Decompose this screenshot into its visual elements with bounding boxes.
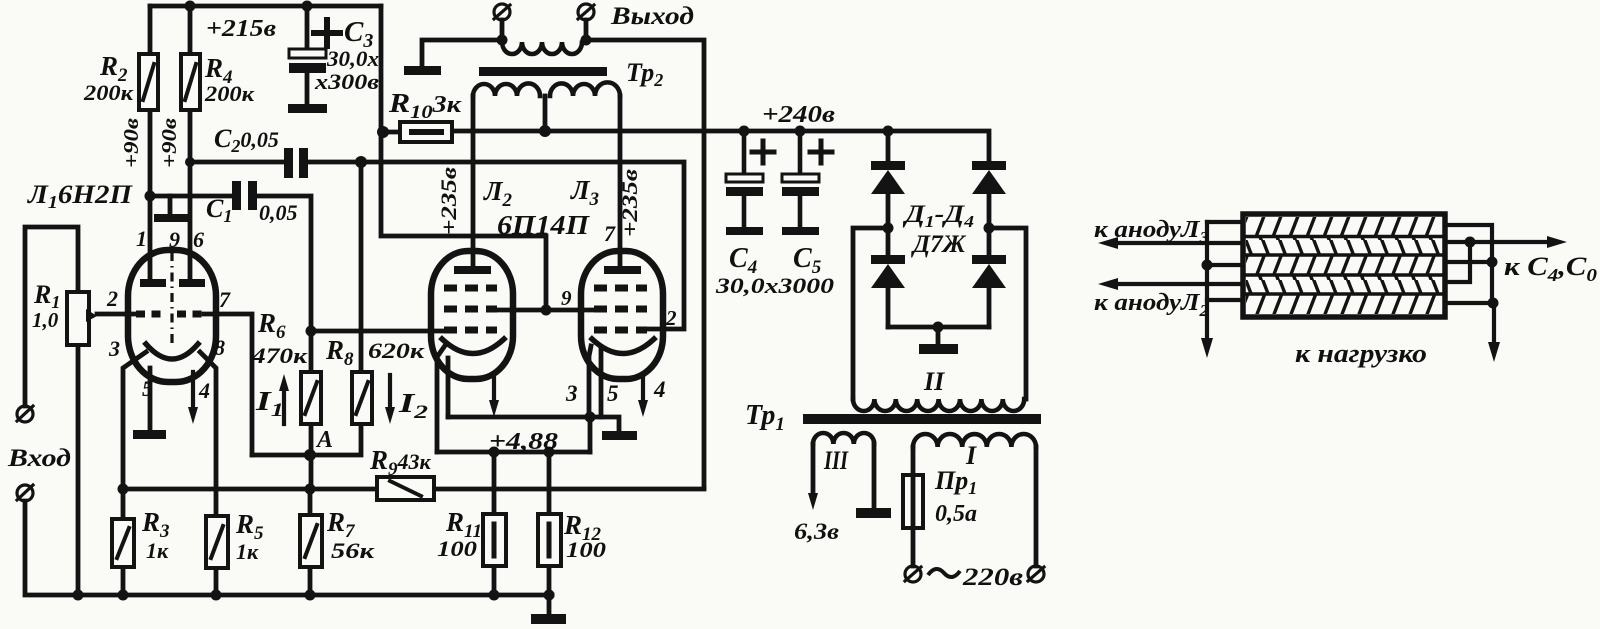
wire top +215v rail [150,4,381,9]
node rectifier right arrow tap [1465,237,1476,248]
wire R8 top drop [359,162,364,372]
resistor R8 [352,372,372,424]
wire Tr2 primary left end to L2 anode [471,96,476,266]
svg-text:9: 9 [169,227,180,252]
current arrow I2 [385,375,395,424]
svg-text:100: 100 [566,537,606,562]
input terminal upper [17,406,33,422]
diode D1 [871,161,905,194]
chassis bar heater bus [602,431,637,440]
svg-text:R6: R6 [257,308,286,343]
wire R3 bottom lead [121,566,126,595]
svg-text:Д7Ж: Д7Ж [911,231,967,258]
wire C2 right to grid riser of L3 [307,162,684,329]
wire R1 wiper from grid pin2 [97,312,140,317]
tube L3 envelope [581,251,663,379]
wire C2 left [190,160,284,165]
node R10 left [377,126,389,138]
wire output terminal left lead [500,20,505,42]
tube L3 grid g3 [594,285,647,292]
svg-text:Выход: Выход [610,3,694,30]
node bus R1 [73,590,84,601]
wire ground bus [25,501,552,595]
node screen bus [541,305,552,316]
wire bridge left AC tap [853,228,888,399]
node bus R3 [118,590,129,601]
svg-text:+90в: +90в [119,117,143,168]
rectifier stack box [1243,214,1445,317]
svg-text:620к: 620к [368,338,425,363]
node A [304,449,316,461]
wire R7 bottom lead [308,489,313,595]
resistor R5 [206,516,228,568]
chassis bar Tr2 ground [404,66,441,75]
mains terminal left [905,566,921,582]
node C3 top [302,1,313,12]
svg-text:Л2: Л2 [483,176,513,211]
svg-text:2: 2 [106,286,118,311]
wire feedback from output [586,40,704,487]
node bus R5 [211,590,222,601]
tube L2 cathode arc [442,339,504,354]
svg-text:5: 5 [607,381,619,406]
arrow rectifier right down [1488,303,1500,362]
arrow 6.3v heater tap [808,493,818,510]
wire R11 bottom lead [492,566,497,595]
svg-text:+240в: +240в [762,102,835,128]
tube L1 separator [170,252,173,346]
svg-text:30,0х3000: 30,0х3000 [715,273,834,298]
node C2 output [355,156,367,168]
capacitor C5 electrolytic [782,131,832,235]
transformer Tr2 secondary winding [502,40,586,54]
svg-text:8: 8 [214,335,225,360]
resistor R9 [377,477,434,500]
svg-text:к анодуЛ3: к анодуЛ3 [1094,217,1210,247]
svg-text:6,3в: 6,3в [794,519,839,544]
wire bridge right string [987,194,992,327]
wire bridge left string [886,131,891,327]
svg-text:56к: 56к [331,538,375,563]
wire output ground branch [422,40,502,66]
svg-text:А: А [315,427,333,453]
wire R2 bottom lead to anode pin1 [148,110,153,279]
svg-text:II: II [923,367,945,396]
tube L2 grid g3 [444,285,497,292]
svg-text:R3: R3 [141,507,170,542]
tube L1 pin4 heater arrow [188,372,198,424]
svg-text:R8: R8 [325,335,354,370]
node rectifier right bottom tap [1488,298,1499,309]
node L1 cathode feedback [118,484,129,495]
capacitor C4 electrolytic [726,131,774,235]
transformer Tr1 winding III [813,433,874,444]
node bridge right mid [984,223,995,234]
wire +4.88v cathode bus [437,450,590,455]
wire feedback bus right part [434,487,704,492]
transformer Tr1 winding II [853,399,1024,411]
svg-text:Л3: Л3 [570,175,599,210]
svg-text:Тр1: Тр1 [745,400,785,435]
wire input hot lead up to R1 [25,227,78,406]
wire R2 top lead [148,6,153,56]
arrow rectifier left down [1201,338,1213,358]
wire output terminal right lead [584,20,589,40]
svg-text:С1: С1 [206,194,232,226]
wire feedback bus left part [123,487,377,492]
node output left [497,35,508,46]
svg-text:0,05: 0,05 [259,200,298,225]
svg-text:к С4,С0: к С4,С0 [1504,252,1597,285]
wire screen grids bus [497,308,594,313]
wire L1 pin8 cathode to R5 [200,352,216,516]
node g1 L2 junction [306,326,317,337]
svg-text:100: 100 [437,536,477,561]
svg-text:R943к: R943к [369,445,432,480]
svg-text:III: III [823,446,848,475]
current arrow I1 [279,374,289,424]
node rectifier left bus tap [1202,260,1213,271]
wire Tr1 I winding right end [1034,447,1039,566]
svg-text:7: 7 [604,221,616,246]
node bridge left mid [883,223,894,234]
node bus R7 [305,590,316,601]
node A to R7 [305,484,316,495]
resistor R3 [112,519,134,567]
svg-text:+90в: +90в [157,117,181,168]
tube L3 cathode arc [592,339,654,354]
svg-text:30,0х: 30,0х [326,46,379,71]
wire L3 cathode drop [589,346,591,417]
svg-text:I1: I1 [255,386,284,421]
node C5 top [795,126,806,137]
node bridge left top [883,126,894,137]
wire bridge minus stem [936,327,941,344]
wire Tr2 primary right end to L3 anode [618,96,623,266]
svg-text:+215в: +215в [206,16,276,42]
svg-text:470к: 470к [251,343,308,368]
resistor R7 [300,515,322,567]
resistor R2 [139,54,158,110]
svg-text:9: 9 [561,286,572,310]
wire R4 bottom lead to anode pin6 [188,110,193,279]
svg-text:6П14П: 6П14П [497,210,590,240]
wire R4 top lead [188,6,193,54]
svg-text:2: 2 [665,306,677,330]
node R12 top [544,447,555,458]
tube L3 anode bar [604,266,641,274]
tube L2 anode bar [454,266,491,274]
svg-text:4: 4 [198,378,210,403]
tube L3 grid g2 [594,306,647,313]
wire Tr1 III winding right end [872,444,877,508]
svg-text:3: 3 [565,381,578,406]
wire R12 top drop [547,452,552,514]
node R4 top [185,1,196,12]
label 220v tilde [928,569,960,577]
node L3 cathode [585,412,596,423]
svg-text:1к: 1к [146,538,169,563]
fuse Pr1 [903,475,923,528]
arrow to C4 C0 [1470,236,1567,248]
wire node A horizontal [252,453,311,458]
resistor R1 potentiometer [67,292,97,345]
wire R5 bottom lead [214,568,219,595]
transformer Tr2 core [479,67,607,76]
svg-text:+235в: +235в [436,167,461,235]
svg-text:5: 5 [142,376,153,401]
svg-text:к анодуЛ2: к анодуЛ2 [1094,290,1210,320]
node R11 top [489,447,500,458]
rectifier left bus [1205,222,1209,340]
transformer Tr1 winding I [913,434,1036,447]
resistor R4 [181,54,200,110]
svg-text:1,0: 1,0 [32,308,59,332]
node output right feedback [581,35,592,46]
svg-text:Пр1: Пр1 [934,466,977,498]
svg-text:Л16Н2П: Л16Н2П [27,180,133,212]
svg-text:220в: 220в [962,564,1023,591]
wire R8 bottom to node A [311,424,361,455]
wire L1 pin7 to node A [204,314,252,455]
svg-text:R7: R7 [326,507,356,542]
wire L2 heater drop [446,358,451,417]
chassis bar main ground [531,614,566,624]
tube L1 envelope [128,250,216,382]
capacitor C2 [284,148,308,178]
svg-text:3: 3 [108,336,120,361]
wire R11 top drop [492,452,497,514]
resistor R6 [301,372,321,424]
svg-text:4: 4 [653,377,666,402]
chassis bar Tr1 III [856,508,891,518]
wire g1 feed of L2 [311,329,444,334]
resistor R12 [538,514,561,566]
capacitor C3 electrolytic [288,20,340,113]
wire L1 pin3 cathode to R3 [123,352,146,519]
input terminal lower [17,485,33,501]
node C4 top [739,126,750,137]
transformer Tr1 core [803,414,1041,424]
svg-text:Тр2: Тр2 [626,58,663,90]
svg-text:I2: I2 [398,388,429,423]
wire C1 right to grid drop of L2 [257,196,311,372]
wire +215v riser to R10 and screen feed [381,6,546,310]
svg-text:0,5а: 0,5а [935,501,977,527]
tube L2 grid g2 [444,306,497,313]
mains terminal right [1028,566,1044,582]
wire L3 second bottom lead [599,349,604,417]
svg-text:R103к: R103к [388,88,462,123]
svg-text:200к: 200к [83,80,134,105]
wire bridge right AC tap [989,228,1026,399]
svg-text:+4,88: +4,88 [489,429,558,455]
resistor R10 [400,122,452,142]
tube L1 anode bar pin6 [179,279,205,287]
wire Tr2 primary center tap [543,96,548,131]
svg-text:к нагрузко: к нагрузко [1295,339,1427,368]
svg-text:+235в: +235в [617,169,642,237]
svg-text:Вход: Вход [7,445,71,472]
tube L1 anode bar pin1 [140,279,166,287]
tube L1 cathode arc [146,344,198,359]
wire C1 left [150,194,232,199]
tube L1 heater chassis bar [133,430,166,439]
wire R6 bottom through node A to R7 [309,424,314,489]
tube L1 grid dashes left [136,311,167,318]
transformer Tr2 primary winding [473,82,620,96]
wire shield stem pin9 [168,196,173,214]
diode D3 [871,255,905,288]
chassis bar bridge minus [919,344,958,354]
svg-text:7: 7 [219,287,231,312]
arrow to anode L2 [1098,278,1243,290]
node bus R11 [489,590,500,601]
tube L2 pin4 heater arrow [489,374,499,417]
tube L2 grid g1 [444,327,497,334]
wire bridge bottom [888,325,989,330]
output terminal right [578,4,594,20]
output terminal left [494,4,510,20]
svg-text:1: 1 [136,226,147,251]
diode D4 [972,255,1006,288]
capacitor C1 [232,181,257,210]
tube L3 pin4 heater arrow [638,374,648,417]
node Tr2 center tap [539,125,551,137]
node rectifier right mid tap [1487,257,1498,268]
wire Tr1 III winding left end with 6.3v arrow [811,444,816,498]
svg-text:6: 6 [193,227,204,252]
svg-text:1к: 1к [236,539,259,564]
wire R1 bottom lead [76,345,81,595]
node anode2 C2 junction [185,157,195,167]
wire R10 left lead [383,130,400,135]
svg-text:Д1-Д4: Д1-Д4 [903,201,974,231]
wire C3 bottom stem [305,73,310,104]
node anode1 C1 junction [145,191,156,202]
svg-text:С20,05: С20,05 [214,124,279,156]
resistor R11 [483,514,506,566]
arrow to anode L3 [1098,237,1243,249]
node bridge bottom center [933,322,944,333]
wire L2 cathode drop [437,347,444,452]
tube L1 grid dashes right [177,311,208,318]
wire heater bus to ground [448,417,619,431]
svg-text:х300в: х300в [314,69,379,94]
wire C3 top stem [305,6,310,49]
wire Tr1 I winding left end through fuse [911,447,916,566]
wire +240v rail [452,131,989,161]
wire R12 bottom lead to chassis [547,566,552,614]
rectifier right stubs [1445,225,1492,303]
tube L1 shield bar pin9 [154,214,191,222]
rectifier left stubs [1207,222,1243,300]
wire L1 pin5 heater to chassis [148,368,153,430]
tube L2 envelope [431,251,513,379]
diode D2 [972,161,1006,194]
tube L3 grid g1 [594,327,647,334]
svg-text:200к: 200к [204,81,255,106]
wire cathode riser L3 [588,417,593,452]
node bus R12 [544,590,555,601]
